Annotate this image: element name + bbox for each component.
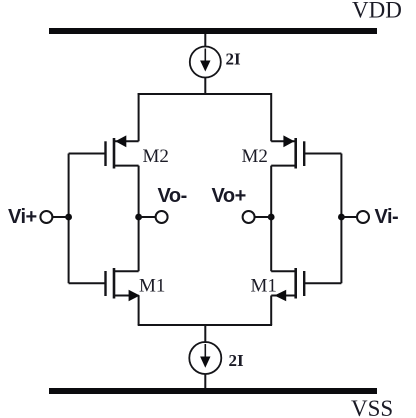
wire Vi- terminal to gate bus [341,216,357,218]
terminal Vo+ [243,211,255,223]
wire bottom bus [138,324,272,326]
wire left gate bus (Vi+ net) [68,154,70,284]
transistor M2 (right PMOS) [271,135,341,168]
terminal Vo- [156,211,168,223]
wire node to Vo+ terminal [255,216,272,218]
transistor M2 (left PMOS) [69,135,139,168]
wire VDD rail to top current source [204,34,206,47]
wire left output column (M2 drain to M1 drain) [138,166,140,272]
svg-text:M2: M2 [242,146,268,167]
svg-text:M1: M1 [251,276,277,297]
svg-text:Vi-: Vi- [375,206,399,228]
terminal Vi+ [40,211,52,223]
node Vi- junction [338,214,345,221]
svg-text:Vo-: Vo- [158,185,187,207]
svg-text:VSS: VSS [351,396,393,418]
current source I2 (2I, bottom) [189,342,221,374]
wire bottom bus to bottom current source [204,325,206,343]
wire bottom current source to VSS rail [204,374,206,388]
node Vi+ junction [65,214,72,221]
svg-text:2I: 2I [229,351,245,370]
wire M1-left source to bottom bus [138,296,140,326]
terminal Vi- [357,211,369,223]
wire node to Vo- terminal [139,216,156,218]
wire M2-right source column [270,93,272,141]
svg-text:M2: M2 [143,146,169,167]
node Vo+ junction [268,214,275,221]
transistor M1 (right NMOS) [271,268,341,301]
svg-text:2I: 2I [226,50,242,69]
power rail VDD [49,28,377,34]
wire M2-left source column [138,93,140,141]
svg-text:Vo+: Vo+ [212,185,246,207]
power rail VSS [49,388,377,394]
wire right output column (M2 drain to M1 drain) [270,166,272,272]
current source I1 (2I, top) [190,47,221,78]
svg-text:Vi+: Vi+ [8,206,37,228]
wire Vi+ terminal to gate bus [53,216,69,218]
wire top bus [138,93,272,95]
wire M1-right source to bottom bus [270,296,272,326]
svg-text:M1: M1 [139,276,165,297]
wire right gate bus (Vi- net) [340,154,342,284]
svg-text:VDD: VDD [352,0,402,23]
wire top current source to top bus [204,78,206,95]
transistor M1 (left NMOS) [69,268,140,301]
node Vo- junction [135,214,142,221]
